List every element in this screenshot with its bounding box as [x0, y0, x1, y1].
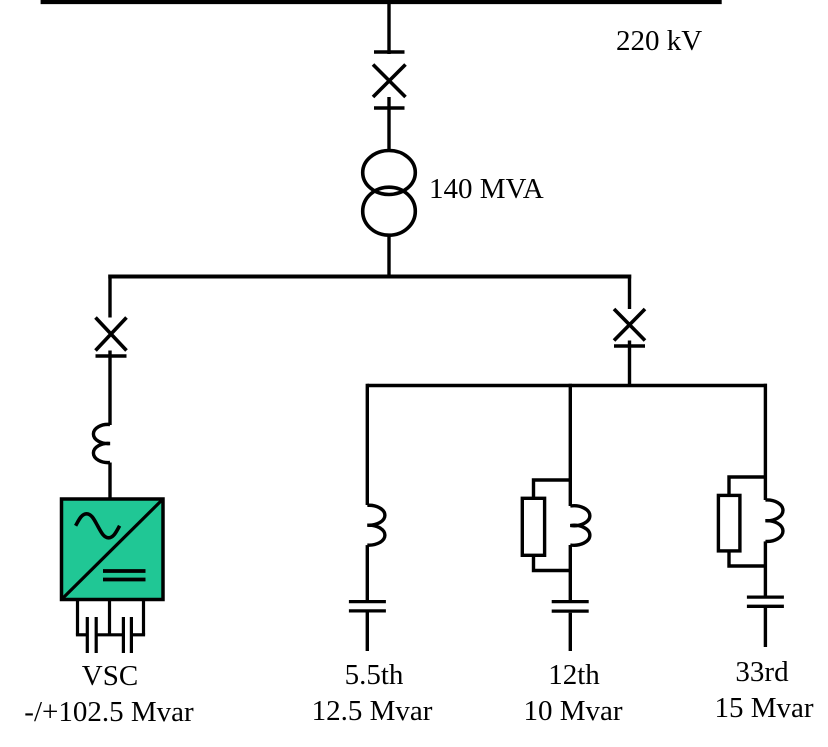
- capacitor Cdc2 plate b: [130, 617, 133, 653]
- resistor R2: [718, 495, 740, 551]
- DC link stub center: [108, 600, 111, 635]
- wire below C3: [764, 608, 767, 647]
- svg-text:12th: 12th: [548, 659, 600, 691]
- wire below C2: [569, 613, 572, 651]
- wire filter bus to RL branch 2: [569, 384, 572, 506]
- svg-text:220 kV: 220 kV: [616, 25, 702, 57]
- wire below C1: [366, 613, 369, 652]
- DC bracket left: [76, 633, 87, 636]
- VSC sine symbol: [76, 514, 120, 538]
- resistor R1: [522, 498, 544, 555]
- inductor L3: [570, 506, 590, 546]
- svg-text:VSC: VSC: [82, 660, 138, 692]
- VSC diagonal: [63, 501, 162, 599]
- wire filter bus to inductor L2: [366, 384, 369, 505]
- breaker CB3 tick: [614, 344, 645, 347]
- wire filter bus to RL branch 3: [764, 384, 767, 500]
- capacitor Cdc1 plate b: [95, 617, 98, 653]
- wire T1 to LV bus: [387, 234, 390, 279]
- capacitor C2: [552, 602, 589, 612]
- svg-text:5.5th: 5.5th: [345, 659, 404, 691]
- wire CB3 to filter bus: [628, 341, 631, 386]
- DC bracket center: [96, 633, 123, 636]
- wire R1 bottom connector: [534, 555, 571, 570]
- wire R2 top connector: [729, 477, 765, 495]
- filter bus wire: [367, 384, 767, 387]
- inductor L2: [367, 505, 385, 545]
- transformer T1 winding 2: [363, 187, 416, 235]
- DC bracket right: [131, 633, 145, 636]
- svg-text:12.5 Mvar: 12.5 Mvar: [312, 695, 433, 727]
- wire R1 top connector: [534, 480, 571, 498]
- breaker CB1 tick top: [374, 50, 405, 53]
- breaker CB2 X: [96, 318, 127, 351]
- wire L1 to VSC: [108, 463, 111, 501]
- breaker CB1 X: [373, 65, 406, 98]
- inductor L4: [765, 500, 783, 541]
- transformer T1 winding 1: [363, 151, 416, 195]
- DC link stub right: [142, 600, 145, 635]
- VSC DC symbol: [103, 571, 146, 580]
- wire bus to breaker CB1: [387, 2, 390, 54]
- breaker CB2 tick: [96, 354, 127, 357]
- wire CB2 to inductor L1: [108, 351, 111, 426]
- svg-text:10 Mvar: 10 Mvar: [523, 695, 622, 727]
- breaker CB3 X: [614, 309, 645, 341]
- svg-text:140 MVA: 140 MVA: [429, 173, 544, 205]
- wire R2 bottom connector: [729, 551, 765, 566]
- VSC converter box U1: [62, 499, 164, 600]
- wire LV bus to breaker CB3: [628, 275, 631, 310]
- capacitor Cdc2 plate a: [122, 617, 125, 653]
- capacitor C1: [349, 602, 386, 611]
- svg-text:33rd: 33rd: [735, 656, 789, 688]
- svg-text:15 Mvar: 15 Mvar: [714, 692, 813, 724]
- wire L4 to capacitor C3: [764, 541, 767, 596]
- wire L2 to capacitor C1: [366, 545, 369, 600]
- capacitor C3: [747, 597, 784, 606]
- breaker CB1 tick bottom: [374, 106, 405, 109]
- DC link stub left: [76, 600, 79, 635]
- inductor L1: [93, 424, 110, 462]
- wire CB1 to transformer T1: [387, 97, 390, 152]
- wire L3 to capacitor C2: [569, 545, 572, 600]
- capacitor Cdc1 plate a: [86, 617, 89, 653]
- bus 220 kV: [41, 0, 722, 4]
- svg-text:-/+102.5 Mvar: -/+102.5 Mvar: [24, 696, 194, 728]
- LV bus wire: [108, 275, 631, 279]
- wire LV bus to breaker CB2: [108, 275, 111, 318]
